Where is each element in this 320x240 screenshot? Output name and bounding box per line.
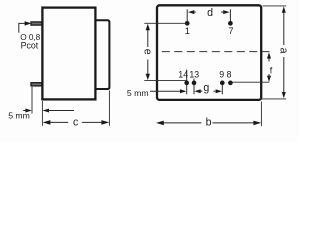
dimension g left arrow: [194, 89, 200, 93]
dimension e down arrow: [146, 74, 150, 80]
5 mm pin-length dimension arrows: [25, 109, 31, 113]
extension line from top view bottom right corner (b): [260, 102, 262, 127]
svg-text:8: 8: [227, 70, 232, 80]
dimension b line: [162, 122, 202, 124]
dimension g right arrow: [216, 89, 222, 93]
leader arrow at pin tip: [25, 21, 32, 25]
dimension a line upper: [283, 11, 285, 45]
extension line from pin tip (5 mm dim): [31, 87, 33, 114]
dimension f up arrow: [267, 52, 271, 58]
5 mm leader arrow: [180, 89, 186, 93]
pin 14 tick: [186, 70, 188, 95]
pin 9 dot: [220, 81, 225, 86]
pin 14 dot: [184, 81, 189, 86]
extension line bottom right (a bottom): [260, 98, 287, 100]
extension line top right (a top): [263, 5, 287, 7]
svg-text:5 mm: 5 mm: [127, 88, 149, 98]
svg-text:9: 9: [219, 70, 224, 80]
pin 8 dot: [228, 81, 233, 86]
svg-text:Pcot: Pcot: [21, 41, 39, 51]
extension line pins row 2 (e bottom): [144, 80, 186, 82]
dimension f down arrow: [267, 76, 271, 82]
dimension e line lower: [147, 60, 149, 76]
dimension d right arrow: [223, 10, 229, 14]
dimension c left arrow: [43, 120, 51, 125]
top view outline: [157, 5, 261, 100]
dimension c line: [50, 121, 69, 123]
pin (front view, upper): [31, 22, 42, 25]
dimension d left arrow: [188, 10, 194, 14]
pin 7 dot: [228, 21, 233, 26]
svg-text:f: f: [270, 65, 273, 75]
dimension a line lower: [283, 57, 285, 93]
svg-text:g: g: [203, 82, 209, 94]
dimension c right arrow: [101, 120, 109, 125]
pin (front view, lower): [31, 83, 42, 86]
svg-text:d: d: [207, 7, 213, 19]
svg-text:b: b: [206, 116, 212, 128]
svg-text:e: e: [142, 49, 154, 55]
dimension e up arrow: [146, 24, 150, 30]
dimension a up arrow: [282, 6, 286, 12]
pin 7 tick: [229, 9, 231, 21]
dimension b right arrow: [253, 121, 261, 126]
pin 13 tick: [193, 79, 195, 95]
extension line from body left edge: [41, 101, 43, 126]
pin 1 dot: [185, 21, 190, 26]
dimension a down arrow: [282, 92, 286, 98]
pin 1 tick: [186, 9, 188, 21]
svg-text:7: 7: [228, 25, 233, 36]
dashed centerline: [162, 51, 270, 53]
pin 8 extension line to f: [232, 81, 269, 83]
svg-text:a: a: [277, 48, 289, 54]
dimension b left arrow: [156, 121, 164, 126]
leader line to pin diameter note: [19, 23, 25, 32]
extension line from flange right edge: [108, 91, 110, 126]
svg-text:14: 14: [178, 70, 188, 80]
extension line pins row 1 (e top): [144, 22, 187, 24]
pin 13 dot: [192, 81, 197, 86]
svg-text:c: c: [73, 116, 79, 128]
pin 9 tick: [221, 81, 223, 95]
svg-text:5 mm: 5 mm: [8, 111, 30, 121]
5 mm leader line to pin 14: [150, 90, 181, 92]
dimension e line upper: [147, 29, 149, 48]
transformer body (front view): [42, 8, 95, 100]
svg-text:1: 1: [185, 25, 190, 36]
svg-text:13: 13: [189, 70, 199, 80]
mounting flange (front view right): [97, 20, 110, 89]
